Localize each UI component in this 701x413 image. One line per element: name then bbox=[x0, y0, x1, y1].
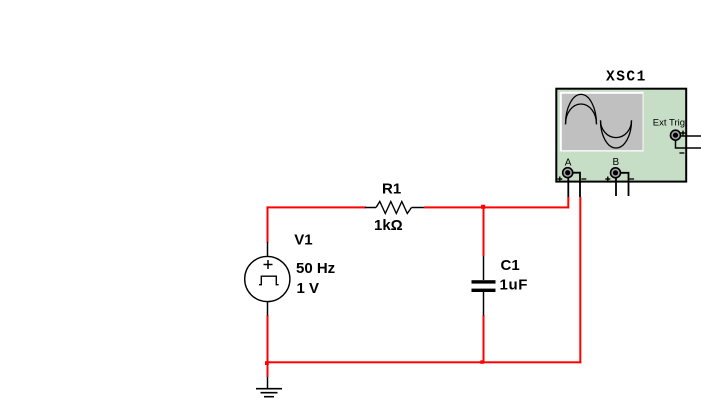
svg-text:C1: C1 bbox=[501, 257, 520, 274]
node junction at ground bbox=[265, 361, 269, 365]
oscilloscope XSC1 bbox=[556, 89, 701, 197]
svg-text:XSC1: XSC1 bbox=[606, 70, 647, 86]
terminal A bbox=[563, 168, 573, 178]
scope waveform trace small bbox=[566, 104, 632, 138]
svg-text:50 Hz: 50 Hz bbox=[296, 260, 335, 277]
terminal Ext Trig minus lead bbox=[676, 139, 701, 148]
wire left vertical from V1 to top net bbox=[267, 206, 269, 362]
resistor R1 bbox=[365, 202, 424, 214]
scope body bbox=[556, 89, 686, 182]
terminal A minus lead bbox=[571, 173, 580, 197]
terminal B minus lead bbox=[619, 173, 629, 196]
wire scope channel A minus drop bbox=[579, 197, 581, 363]
scope waveform trace large bbox=[566, 94, 632, 148]
wire capacitor branch bottom bbox=[483, 315, 485, 363]
terminal B bbox=[611, 168, 621, 178]
wire ground stub bbox=[267, 362, 269, 377]
Ext Trig plus sign bbox=[681, 131, 686, 136]
node junction at capacitor top bbox=[481, 205, 485, 209]
capacitor C1 bbox=[472, 256, 496, 316]
wire capacitor branch top bbox=[483, 207, 485, 256]
terminal Ext Trig plus lead bbox=[676, 135, 701, 137]
ground bbox=[256, 377, 282, 397]
terminal Ext Trig bbox=[671, 130, 681, 140]
voltage source V1 bbox=[245, 242, 290, 316]
svg-text:A: A bbox=[565, 158, 572, 169]
node junction at capacitor bottom bbox=[480, 360, 484, 364]
wire top horizontal net bbox=[267, 206, 570, 208]
Ext Trig minus sign bbox=[679, 152, 684, 154]
B minus sign bbox=[629, 178, 634, 180]
terminal B plus lead bbox=[615, 177, 617, 196]
svg-text:1uF: 1uF bbox=[500, 276, 528, 293]
svg-text:1kΩ: 1kΩ bbox=[374, 217, 403, 234]
svg-text:Ext Trig: Ext Trig bbox=[653, 117, 685, 128]
wire bottom horizontal net bbox=[267, 361, 582, 363]
svg-text:1 V: 1 V bbox=[297, 280, 320, 297]
scope screen bbox=[562, 94, 643, 150]
terminal A plus lead bbox=[567, 177, 569, 197]
B plus sign bbox=[605, 177, 610, 182]
A plus sign bbox=[557, 177, 562, 182]
svg-text:R1: R1 bbox=[382, 181, 401, 198]
svg-text:B: B bbox=[613, 157, 620, 168]
scope screen frame bbox=[560, 92, 644, 152]
wire scope channel A plus drop bbox=[567, 197, 569, 208]
svg-text:V1: V1 bbox=[294, 232, 312, 249]
A minus sign bbox=[581, 178, 586, 180]
